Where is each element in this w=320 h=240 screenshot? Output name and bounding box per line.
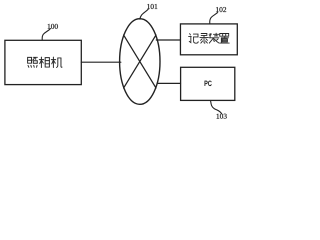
ref number 100 [48,24,58,29]
glyph 相 [39,57,49,67]
ref number 103 [217,114,227,119]
PC box 103 [181,67,235,100]
ref number 102 [216,7,226,12]
leader 102 [210,13,218,24]
label 记录装置 (recording device) hand-drawn glyphs [189,33,230,43]
camera box 100 [5,40,81,84]
wire hub to recorder [156,39,180,41]
glyph 录 [200,34,208,44]
glyph 照 [28,57,38,67]
glyph 装 [209,33,219,43]
hub X diagonal 2 [124,35,156,88]
label 照相机 (camera) hand-drawn glyphs [28,57,62,67]
PC text [205,81,212,87]
leader 103 [211,101,222,114]
wire camera to hub [81,61,120,63]
glyph 置 [220,34,230,44]
hub X diagonal 1 [124,35,156,88]
glyph 机 [51,57,62,67]
wire hub to PC [157,82,180,84]
recorder box 102 [180,24,237,55]
ref number 101 [147,4,157,9]
hub ellipse 101 [120,19,160,105]
leader 100 [42,29,50,40]
leader 101 [140,9,148,19]
glyph 记 [189,34,199,44]
